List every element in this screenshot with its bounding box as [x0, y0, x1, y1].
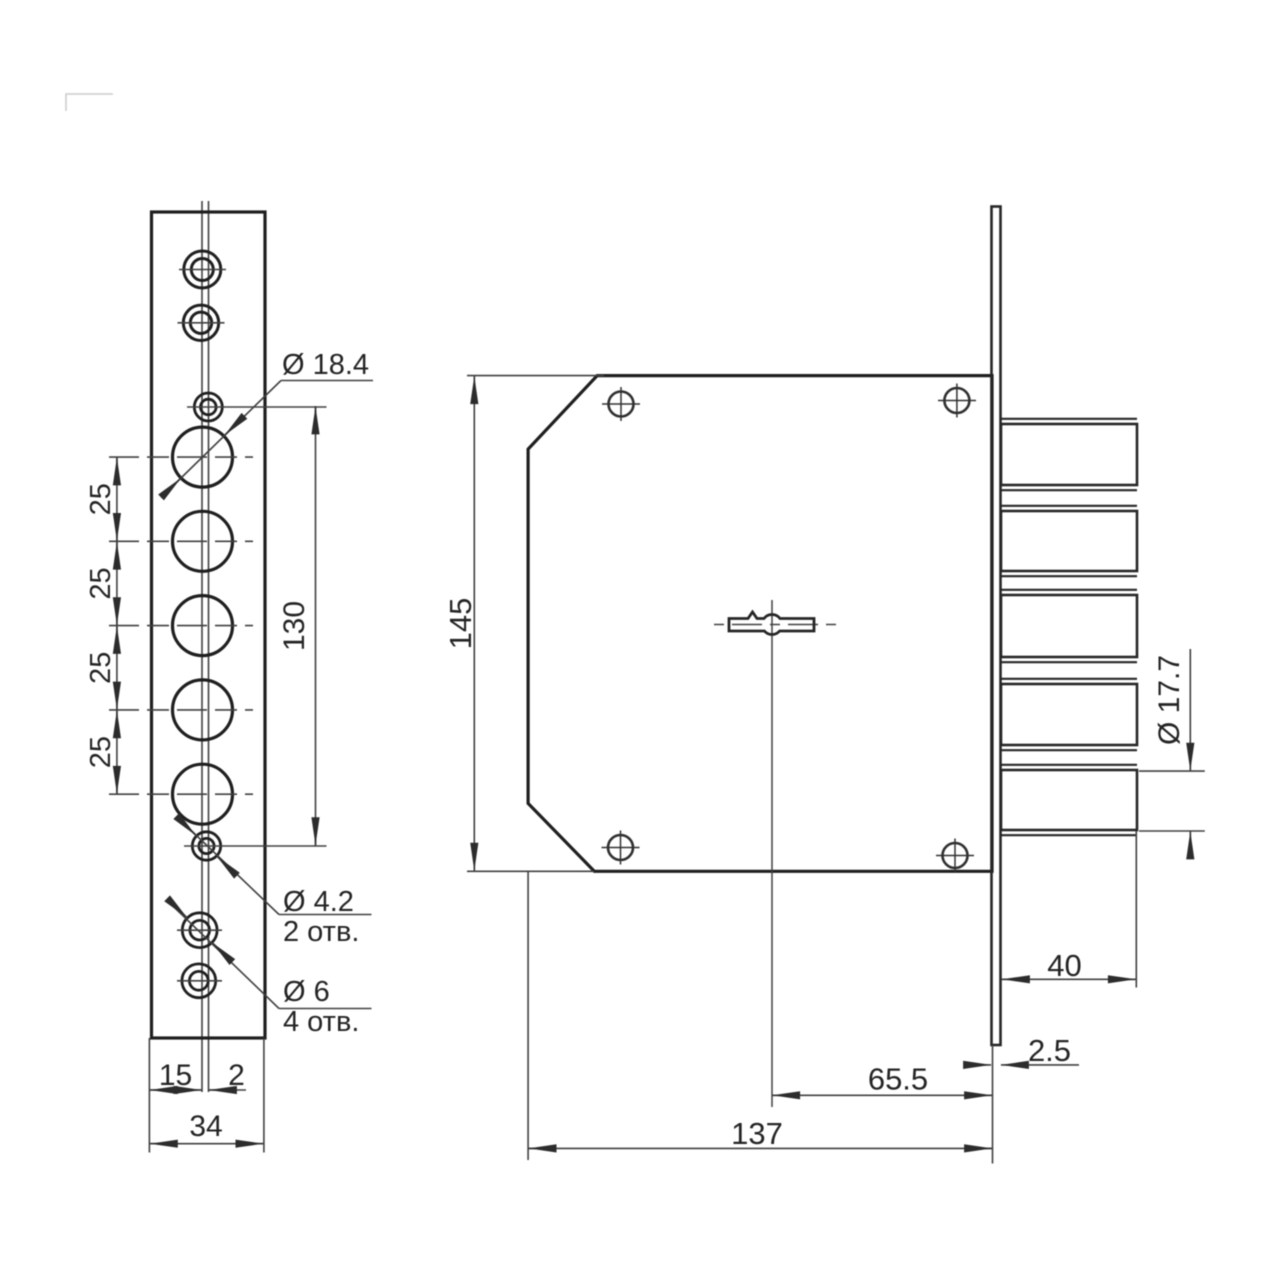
- screw hole bottom-right: [936, 839, 974, 873]
- center line A: [201, 201, 203, 1092]
- big hole circle C5: [173, 764, 233, 824]
- bolt B3: [1001, 590, 1137, 662]
- dimension 2 line: [209, 1089, 247, 1091]
- washer hole W2 (d6): [178, 305, 225, 340]
- svg-text:25: 25: [85, 483, 117, 515]
- extension line for 40: [1135, 831, 1137, 988]
- big hole circle C3: [173, 596, 233, 656]
- dimension 40: [1002, 978, 1137, 980]
- svg-text:25: 25: [85, 736, 117, 768]
- faint corner mark: [66, 94, 113, 111]
- extension line below body left: [527, 871, 529, 1160]
- svg-text:137: 137: [731, 1116, 783, 1151]
- dimension 145: [467, 376, 604, 872]
- washer hole W6 (d6): [177, 964, 222, 998]
- center line of C4: [109, 709, 253, 711]
- faceplate edge-on: [992, 207, 1001, 1046]
- extension line at W3 / top of 130 dim: [187, 406, 327, 408]
- center line B: [208, 201, 210, 1092]
- big hole circle C2: [173, 511, 233, 571]
- dimension chain 25x4 line: [116, 457, 118, 794]
- dimension 34 line: [149, 1143, 264, 1145]
- bolt B4: [1001, 679, 1137, 750]
- svg-text:34: 34: [189, 1110, 222, 1143]
- center line of C5: [109, 793, 253, 795]
- dimension 15 line: [149, 1089, 202, 1091]
- lock body outline: [528, 376, 992, 872]
- svg-text:130: 130: [278, 601, 311, 651]
- svg-text:4 отв.: 4 отв.: [283, 1006, 359, 1038]
- bolt B1: [1001, 419, 1137, 490]
- washer hole W1 (d6): [179, 251, 226, 288]
- svg-text:40: 40: [1047, 948, 1081, 983]
- extension line below faceplate: [992, 1045, 994, 1164]
- leader d4.2: [179, 819, 372, 915]
- leader d18.4: [161, 381, 373, 498]
- svg-text:145: 145: [443, 598, 478, 650]
- washer hole W5 (d6): [177, 913, 222, 948]
- center line of C3: [109, 625, 253, 627]
- center line of C1: [109, 456, 253, 458]
- keyhole vertical center line: [771, 600, 773, 1107]
- svg-text:2 отв.: 2 отв.: [283, 916, 359, 948]
- dimension 130 line: [315, 406, 317, 846]
- keyhole slot: [729, 612, 814, 635]
- svg-text:Ø 4.2: Ø 4.2: [283, 886, 354, 918]
- svg-text:Ø 18.4: Ø 18.4: [282, 349, 369, 381]
- keyhole horizontal center line: [714, 624, 841, 626]
- big hole circle C1: [173, 427, 233, 487]
- leader d6: [170, 902, 371, 1009]
- extension line bottom right: [263, 1038, 265, 1153]
- screw hole top-left: [602, 387, 640, 421]
- extension line at W4 / bottom of 130 dim: [184, 845, 327, 847]
- screw hole bottom-left: [602, 831, 640, 865]
- svg-text:2: 2: [228, 1059, 245, 1092]
- extension line bottom left: [148, 1038, 150, 1153]
- big hole circle C4: [173, 680, 233, 740]
- center line of C2: [109, 540, 253, 542]
- dimension d17.7: [1139, 649, 1205, 858]
- svg-text:2.5: 2.5: [1028, 1033, 1071, 1068]
- svg-text:Ø 6: Ø 6: [283, 976, 330, 1008]
- screw hole top-right: [938, 384, 976, 418]
- svg-text:Ø 17.7: Ø 17.7: [1153, 655, 1186, 745]
- svg-text:65.5: 65.5: [868, 1062, 928, 1097]
- bolt B5: [1001, 765, 1137, 835]
- dimension 137: [528, 1147, 992, 1149]
- washer hole W4 (d4.2): [192, 832, 220, 860]
- svg-text:15: 15: [159, 1059, 192, 1092]
- washer hole W3 (d4.2): [194, 393, 222, 421]
- dimension 65.5: [772, 1094, 993, 1096]
- bolt B2: [1001, 506, 1137, 576]
- dimension 2.5: [966, 1064, 1079, 1066]
- svg-text:25: 25: [85, 567, 117, 599]
- faceplate strip outline: [152, 212, 266, 1038]
- svg-text:25: 25: [85, 652, 117, 684]
